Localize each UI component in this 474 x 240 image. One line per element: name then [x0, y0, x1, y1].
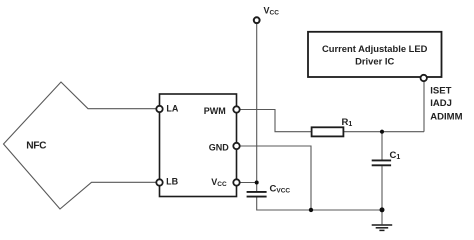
- svg-text:Driver IC: Driver IC: [355, 55, 394, 66]
- svg-text:GND: GND: [209, 143, 230, 153]
- svg-text:ADIMM: ADIMM: [430, 112, 462, 123]
- svg-text:LA: LA: [166, 104, 178, 114]
- svg-text:PWM: PWM: [204, 106, 226, 116]
- svg-text:IADJ: IADJ: [430, 98, 452, 109]
- svg-text:Current Adjustable LED: Current Adjustable LED: [322, 43, 428, 54]
- svg-text:LB: LB: [166, 177, 178, 187]
- svg-text:ISET: ISET: [430, 85, 451, 96]
- svg-text:NFC: NFC: [26, 141, 47, 152]
